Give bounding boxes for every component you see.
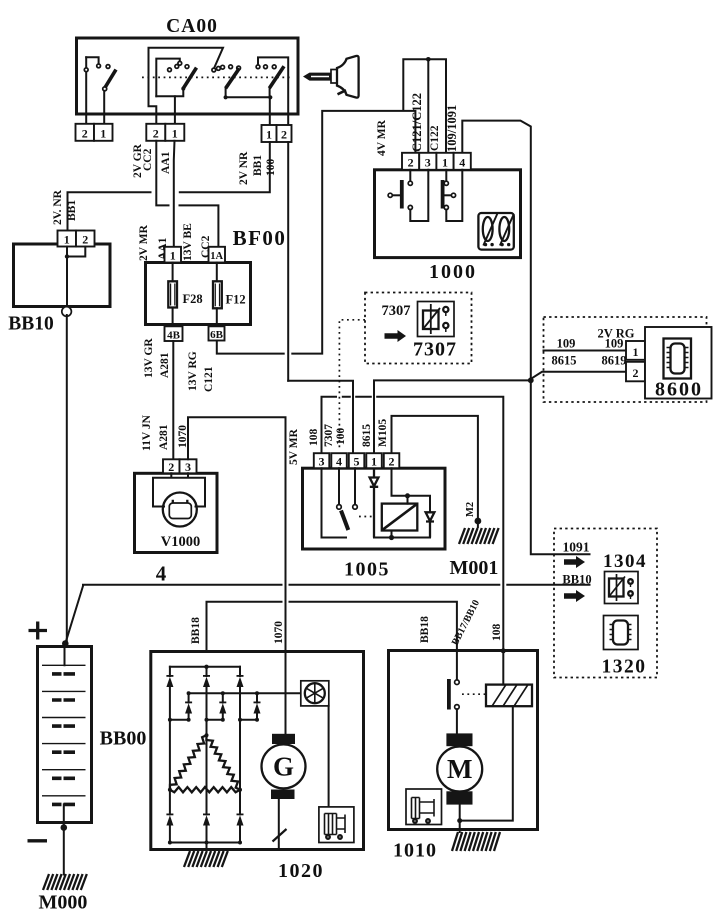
label 2V RG — [598, 327, 635, 341]
alternator 1020 — [151, 652, 364, 883]
wire 1091 from junction to 1304 — [531, 380, 590, 554]
svg-text:1005: 1005 — [344, 559, 390, 581]
svg-text:2: 2 — [82, 127, 88, 141]
8600 box — [645, 327, 712, 401]
arrow BB10 — [564, 590, 585, 602]
supply bus wire BB10/4 — [65, 585, 589, 644]
label BB18 (1020) — [190, 617, 202, 644]
svg-text:2V NR: 2V NR — [238, 151, 250, 185]
1000 switch A — [388, 170, 428, 221]
wire 1070 from V1000 pin 3 to 1020 — [188, 417, 286, 734]
svg-text:1091: 1091 — [563, 540, 590, 555]
svg-text:CA00: CA00 — [166, 16, 218, 37]
svg-text:3: 3 — [319, 455, 325, 469]
wire label 13V BE — [182, 223, 194, 261]
svg-text:F12: F12 — [226, 293, 246, 307]
1020 generator G — [262, 734, 306, 850]
wire BB10 to battery — [66, 315, 68, 641]
wire CC2 from CA00 to BF00 pin 1A — [156, 141, 218, 247]
label M2 — [465, 502, 476, 517]
wire label 109/1091 — [445, 105, 459, 152]
wire 100 into 1005 pin 5 — [288, 381, 353, 454]
1020 regulator drop wire — [328, 706, 330, 807]
label 109 (right) — [605, 337, 624, 351]
label 1320 — [602, 657, 647, 678]
label 108 — [308, 429, 320, 447]
wire label 2V MR — [138, 224, 150, 261]
wire 8619 into 8600 pin 2 — [529, 372, 626, 381]
CA00 connector 1|2 (right) — [262, 125, 292, 142]
fuse F12 — [213, 263, 246, 327]
wire label C122 — [429, 125, 441, 151]
svg-text:3: 3 — [425, 156, 431, 170]
1005 bottom junction — [374, 535, 430, 540]
1020 regulator icon — [301, 681, 329, 706]
svg-text:8619: 8619 — [602, 354, 627, 368]
V1000 inner contour — [153, 473, 205, 506]
svg-text:C121: C121 — [203, 366, 215, 392]
CA00 pole 3 switch — [212, 65, 241, 100]
svg-text:8600: 8600 — [655, 379, 703, 401]
svg-text:M001: M001 — [450, 557, 499, 579]
svg-text:109/1091: 109/1091 — [445, 105, 459, 152]
svg-text:7307: 7307 — [323, 424, 335, 447]
label M105 — [377, 419, 389, 447]
svg-text:1: 1 — [442, 156, 448, 170]
svg-text:4B: 4B — [167, 330, 181, 342]
1005 internal switch — [322, 468, 373, 537]
wire label A281 — [159, 352, 171, 378]
wire 109 into 8600 pin 1 — [544, 350, 627, 352]
label 1070 (1020) — [273, 621, 285, 644]
label 8615 — [552, 354, 577, 368]
1320 IC icon — [604, 616, 639, 650]
reference box 1304 / 1320 dotted — [554, 529, 657, 678]
svg-text:BB00: BB00 — [100, 728, 147, 750]
svg-text:2: 2 — [168, 460, 174, 474]
svg-text:1: 1 — [64, 233, 70, 247]
wire 108 from 1005 pin 3 to 1010 — [322, 397, 504, 650]
junction node 109/8615 — [528, 377, 534, 383]
svg-text:M2: M2 — [465, 502, 476, 517]
label BB10 (bus) — [562, 573, 591, 587]
1005 connector 3|4|5|1|2 — [314, 453, 400, 468]
wire label BB1 — [252, 155, 264, 176]
wire M105 from 1005 pin 2 to ground M001 — [392, 416, 478, 519]
CA00 mechanical link dotted line — [142, 76, 292, 78]
svg-text:M: M — [447, 754, 472, 784]
1010 solenoid to motor bottom — [457, 706, 513, 823]
wire label 13V RG — [187, 351, 199, 391]
label 100 (wire) — [335, 428, 347, 446]
svg-text:A281: A281 — [158, 424, 170, 450]
svg-text:AA1: AA1 — [160, 151, 172, 174]
BB10 internal link — [65, 247, 86, 307]
svg-text:4: 4 — [459, 156, 465, 170]
svg-text:2V. NR: 2V. NR — [52, 189, 64, 225]
1005 relay coil — [382, 496, 418, 538]
label 2V. NR (BB10 wire) — [52, 189, 64, 225]
svg-text:1304: 1304 — [603, 551, 647, 572]
1000 switch B — [443, 170, 463, 221]
svg-text:108: 108 — [308, 429, 320, 447]
1000 warning lamps icon — [478, 213, 514, 250]
CA00 pole 4 switch — [226, 57, 289, 123]
label 7307 (wire) — [323, 424, 335, 447]
instrument module 8600 dotted box — [544, 317, 707, 402]
BF00 connector pin 1 — [165, 247, 182, 263]
V1000 connector 2|3 — [163, 459, 197, 474]
svg-text:13V BE: 13V BE — [182, 223, 194, 261]
svg-text:2: 2 — [281, 128, 287, 142]
1020 diodes second row — [185, 693, 260, 720]
wire AA1 from CA00 to BF00 pin 1 — [173, 141, 176, 247]
1005 diode (right) — [426, 512, 435, 537]
CA00 connector 2|1 (middle) — [146, 124, 184, 141]
svg-text:BF00: BF00 — [233, 226, 287, 250]
wire A281 from BF00 4B to V1000 — [172, 341, 174, 459]
fuse F28 — [168, 263, 202, 327]
7307 dashed link to 1005 pin 4 — [339, 320, 365, 451]
label 4 — [156, 562, 167, 586]
svg-text:1: 1 — [371, 455, 377, 469]
ground 1010 — [452, 832, 500, 851]
storage battery BB00 — [28, 622, 147, 841]
wire label 2V GR — [132, 143, 144, 178]
wire C121 from BF00 6B to 1000 — [217, 57, 446, 354]
svg-text:2: 2 — [389, 455, 395, 469]
label 1005 — [344, 559, 390, 581]
1000 connector 2|3|1|4 — [402, 153, 471, 170]
label BB17/BB10 — [450, 598, 482, 647]
svg-text:C121/C122: C121/C122 — [410, 93, 424, 152]
svg-text:5V MR: 5V MR — [288, 428, 300, 465]
svg-text:4V MR: 4V MR — [376, 119, 388, 156]
relay reference 7307 dotted box — [365, 293, 472, 364]
ground M001 — [450, 518, 499, 579]
svg-text:2: 2 — [153, 127, 159, 141]
label BB1 (BB10 wire) — [66, 200, 78, 221]
wire label CC2 — [142, 148, 154, 171]
svg-text:M000: M000 — [39, 892, 88, 914]
battery warning lamp module 4 / V1000 — [135, 473, 218, 552]
svg-text:6B: 6B — [210, 329, 224, 341]
wire 8615 from 1005 pin 1 to junction — [374, 380, 529, 453]
svg-text:5: 5 — [354, 455, 360, 469]
svg-text:1070: 1070 — [273, 621, 285, 644]
label 108 (1010) — [491, 624, 503, 642]
svg-text:13V RG: 13V RG — [187, 351, 199, 391]
svg-text:C122: C122 — [429, 125, 441, 151]
fuse box BF00 — [146, 226, 287, 325]
1020 aux icon box — [319, 807, 354, 843]
svg-text:BB18: BB18 — [419, 616, 431, 643]
svg-text:G: G — [273, 752, 294, 782]
CA00 pole 1 switch — [84, 57, 116, 124]
svg-text:4: 4 — [156, 562, 167, 586]
label BB18 (1010) — [419, 616, 431, 643]
1020 phase taps — [168, 718, 259, 815]
label 1304 — [603, 551, 647, 572]
CA00 connector 2|1 (left, pins 2 1) — [76, 124, 113, 141]
ground 1020 — [184, 851, 228, 867]
svg-text:109: 109 — [605, 337, 624, 351]
svg-text:BB1: BB1 — [252, 155, 264, 176]
wire label C121 — [203, 366, 215, 392]
svg-text:100: 100 — [265, 159, 277, 177]
1020 rectifier top rail — [170, 665, 240, 669]
svg-text:100: 100 — [335, 428, 347, 446]
svg-text:1: 1 — [170, 249, 176, 263]
label 8619 — [602, 354, 627, 368]
svg-text:2: 2 — [408, 156, 414, 170]
svg-text:BB10: BB10 — [8, 314, 54, 335]
wire BB18 from 1020 to 1010 — [207, 602, 457, 652]
svg-text:13V GR: 13V GR — [143, 338, 155, 378]
svg-text:V1000: V1000 — [161, 534, 200, 550]
wire label C121/C122 — [410, 93, 424, 152]
1005 internal wiring pin 2 — [392, 468, 431, 512]
wire label AA1 (at BF00) — [157, 237, 169, 260]
antitheft switch unit 1000 — [375, 170, 521, 283]
label 11V JN — [141, 414, 153, 451]
V1000 lamp circle with battery symbol — [163, 493, 197, 527]
svg-text:7307: 7307 — [382, 303, 411, 319]
label 5V MR — [288, 428, 300, 465]
CA00 inner frame — [149, 48, 224, 124]
svg-text:1020: 1020 — [278, 860, 324, 882]
starter motor 1010 — [389, 651, 538, 862]
svg-text:BB1: BB1 — [66, 200, 78, 221]
1010 wire 108 entry — [501, 648, 506, 684]
wire 109/1091 from 1000 pin 4 to junction — [462, 121, 531, 381]
svg-text:108: 108 — [491, 624, 503, 642]
BF00 connector pin 6B — [209, 326, 225, 341]
svg-text:A281: A281 — [159, 352, 171, 378]
svg-text:1: 1 — [172, 127, 178, 141]
svg-text:CC2: CC2 — [142, 148, 154, 171]
svg-text:1: 1 — [633, 345, 639, 359]
svg-text:11V JN: 11V JN — [141, 414, 153, 451]
svg-text:1: 1 — [266, 128, 272, 142]
wire label 100 — [265, 159, 277, 177]
wire label AA1 — [160, 151, 172, 174]
svg-text:1010: 1010 — [393, 840, 437, 862]
1304 relay icon — [605, 572, 639, 604]
wire battery to ground M000 — [63, 828, 65, 875]
svg-text:2: 2 — [633, 366, 639, 380]
svg-text:1320: 1320 — [602, 657, 647, 678]
1020 second rail to regulator — [187, 691, 301, 695]
svg-text:8615: 8615 — [361, 424, 373, 447]
1020 stator delta winding — [168, 733, 242, 792]
7307 relay icon — [418, 302, 455, 337]
svg-text:109: 109 — [557, 337, 576, 351]
1020 diodes bottom row — [166, 790, 243, 843]
label A281 (at V1000) — [158, 424, 170, 450]
svg-text:M105: M105 — [377, 419, 389, 447]
7307 arrow — [385, 330, 407, 342]
BB10 output node circle — [62, 307, 72, 317]
arrow to 1304 — [564, 556, 585, 568]
junction battery positive — [62, 640, 69, 647]
BB10 connector 1|2 — [58, 231, 95, 247]
label 109 (left) — [557, 337, 576, 351]
wire label 13V GR — [143, 338, 155, 378]
svg-text:3: 3 — [185, 460, 191, 474]
svg-text:8615: 8615 — [552, 354, 577, 368]
1010 switch contacts — [449, 651, 486, 710]
wire BB1 from CA00 to BB10 — [68, 142, 270, 231]
svg-text:1: 1 — [100, 127, 106, 141]
BF00 connector pin 4B — [165, 326, 183, 341]
wire label 4V MR — [376, 119, 388, 156]
label 1091 — [563, 540, 590, 555]
1010 motor M — [437, 709, 482, 832]
wire label CC2 (at BF00) — [200, 235, 212, 258]
svg-text:7307: 7307 — [413, 339, 457, 361]
CA00 pole 2 switch — [156, 59, 196, 124]
svg-text:1A: 1A — [210, 251, 223, 262]
1010 starter icon box — [406, 789, 442, 825]
1020 bottom rail and ground stub — [168, 841, 242, 850]
svg-text:F28: F28 — [183, 292, 203, 306]
label 1070 (at V1000) — [177, 425, 189, 448]
BF00 connector pin 1A — [209, 247, 226, 263]
junction box BB10 — [8, 244, 110, 335]
key symbol — [303, 56, 359, 98]
ground M000 — [39, 874, 88, 914]
svg-text:4: 4 — [336, 455, 342, 469]
1020 diodes top row — [166, 667, 243, 735]
svg-text:2: 2 — [82, 233, 88, 247]
wire label 2V NR — [238, 151, 250, 185]
svg-text:2V MR: 2V MR — [138, 224, 150, 261]
svg-text:1000: 1000 — [429, 261, 477, 283]
label 8615 (wire) — [361, 424, 373, 447]
1005 diode (pin 1) — [370, 468, 379, 537]
8600 connector pin 1 — [626, 341, 645, 360]
1010 solenoid coil — [486, 685, 532, 707]
ignition switch assembly CA00 box — [77, 16, 299, 114]
wire 100 from CA00 down — [287, 142, 289, 381]
svg-text:BB18: BB18 — [190, 617, 202, 644]
junction battery negative — [61, 824, 68, 831]
starter relay unit 1005 — [303, 468, 446, 549]
7307 big label — [413, 339, 457, 361]
8600 connector pin 2 — [626, 362, 645, 382]
